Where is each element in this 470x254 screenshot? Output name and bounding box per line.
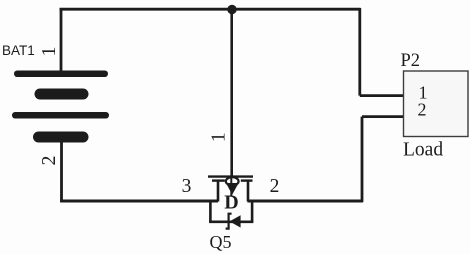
- transistor Q5 drain mark D: [224, 192, 238, 214]
- transistor Q5 bubble: [226, 177, 239, 185]
- svg-text:D: D: [224, 192, 238, 214]
- wire: right rail top (to P2 pin 1): [358, 8, 361, 96]
- transistor Q5 gate bar: [208, 175, 253, 177]
- battery BAT1 plate 3 (long): [12, 112, 109, 119]
- node: top junction: [227, 5, 236, 14]
- wire: battery bottom down to bottom rail: [60, 141, 63, 202]
- transistor Q5 left post (pin 3): [217, 181, 220, 202]
- transistor Q5 substrate arrow (down triangle): [226, 183, 239, 195]
- pin number 2 (Q5 right): [270, 176, 280, 197]
- svg-text:Q5: Q5: [210, 232, 232, 252]
- wire: bottom rail left (to Q5 pin 3): [60, 200, 218, 203]
- wire: left rail down to battery: [60, 8, 63, 72]
- wire: P2 pin 1 stub: [360, 94, 404, 97]
- wire: body diode loop right vertical: [251, 200, 254, 222]
- svg-text:2: 2: [418, 100, 427, 120]
- pin number 1 (battery top, rotated): [38, 47, 60, 57]
- pin number 2 (battery bottom, rotated): [38, 156, 60, 166]
- svg-text:1: 1: [209, 132, 230, 142]
- transistor Q5 right post (pin 2): [247, 181, 250, 202]
- wire: bottom rail right (Q5 pin 2 to right rail): [248, 200, 364, 203]
- pin number 1 (Q5 gate, rotated): [209, 132, 230, 142]
- pin number 1 (P2): [419, 83, 428, 103]
- svg-text:P2: P2: [401, 51, 421, 71]
- transistor Q5 mid stem: [230, 176, 232, 197]
- pin number 2 (P2): [418, 100, 427, 120]
- diode D (Q5 body diode) schottky bar: [226, 214, 232, 229]
- pin number 3 (Q5 left): [182, 176, 192, 197]
- wire: P2 pin 2 stub: [362, 115, 404, 118]
- battery BAT1 plate 4 (short thick): [33, 132, 89, 143]
- wire: right rail bottom (P2 pin 2 down to bottom rail): [361, 117, 364, 202]
- battery BAT1 plate 1 (long): [14, 71, 108, 78]
- wire: gate wire from junction down to Q5: [230, 10, 233, 177]
- label Load: [403, 140, 443, 161]
- svg-text:2: 2: [270, 176, 280, 197]
- svg-text:3: 3: [182, 176, 192, 197]
- connector P2 box: [404, 71, 469, 137]
- wire: body diode loop bottom: [209, 221, 253, 224]
- label Q5: [210, 232, 232, 252]
- wire: body diode loop left vertical: [209, 200, 212, 222]
- label P2: [401, 51, 421, 71]
- wire: top rail: [60, 8, 361, 11]
- svg-text:2: 2: [38, 156, 60, 166]
- label BAT1: [2, 43, 35, 58]
- battery BAT1 plate 2 (short thick): [35, 89, 89, 100]
- svg-text:Load: Load: [403, 140, 443, 161]
- transistor Q5 channel bar right segment: [241, 179, 253, 181]
- svg-text:BAT1: BAT1: [2, 43, 35, 58]
- diode D (Q5 body diode) triangle: [230, 215, 241, 227]
- svg-text:1: 1: [38, 47, 60, 57]
- transistor Q5 channel bar left segment: [212, 179, 225, 181]
